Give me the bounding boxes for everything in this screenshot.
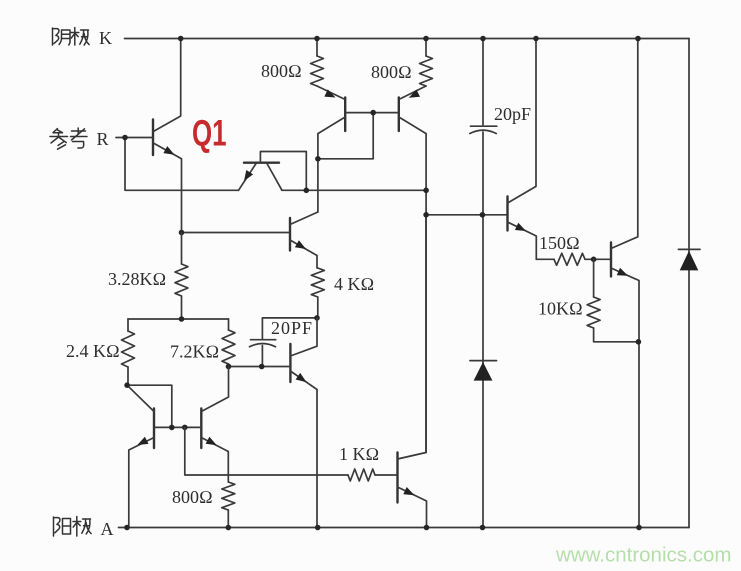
capacitor 20PF (left) xyxy=(250,315,320,366)
diode D2 (right edge) xyxy=(678,249,700,270)
char yang xyxy=(54,517,71,536)
svg-text:800Ω: 800Ω xyxy=(261,61,302,81)
transistor NPN pre-driver (right) xyxy=(508,39,537,260)
diode D1 (middle) xyxy=(470,361,497,381)
transistor NPN mirror right xyxy=(201,367,228,483)
svg-text:K: K xyxy=(99,28,112,48)
wire collector-base node to long wire xyxy=(282,188,426,194)
char can xyxy=(50,129,68,150)
resistor 150 ohm xyxy=(536,253,611,265)
label 20PF xyxy=(271,318,313,338)
svg-text:Q1: Q1 xyxy=(192,112,227,154)
transistor lateral PNP (diode-connected) xyxy=(239,152,307,191)
label 800 ohm left xyxy=(261,61,302,81)
resistor 800 ohm left xyxy=(311,39,346,100)
label 7.2K xyxy=(170,342,219,362)
resistor 4K xyxy=(311,268,324,318)
node A label xyxy=(54,517,114,540)
label 4K xyxy=(334,274,374,294)
label 1K xyxy=(339,444,379,464)
label Q1 xyxy=(192,112,227,154)
watermark xyxy=(555,544,731,567)
resistor 1K xyxy=(348,469,398,481)
wire right edge vertical xyxy=(688,39,690,528)
resistor 3.28K xyxy=(175,233,188,320)
node K label xyxy=(53,28,113,49)
svg-text:7.2KΩ: 7.2KΩ xyxy=(170,342,219,362)
resistor 800 ohm bottom xyxy=(222,482,235,528)
capacitor 20pF (top) xyxy=(470,39,497,528)
svg-text:20PF: 20PF xyxy=(271,318,313,338)
transistor NPN (below 20PF) xyxy=(290,318,317,528)
transistor NPN bottom driver xyxy=(398,215,427,528)
resistor 2.4K xyxy=(122,319,135,385)
svg-text:2.4 KΩ: 2.4 KΩ xyxy=(66,341,120,361)
svg-text:800Ω: 800Ω xyxy=(172,487,213,507)
wire comp node xyxy=(423,188,507,218)
resistor 10K xyxy=(587,259,641,344)
char ji xyxy=(71,28,89,46)
svg-text:10KΩ: 10KΩ xyxy=(538,299,583,319)
label 150 ohm xyxy=(539,233,580,253)
transistor PNP right of mirror pair xyxy=(399,98,426,453)
char yin xyxy=(53,28,71,45)
label 3.28K xyxy=(108,269,166,289)
transistor NPN mirror left xyxy=(127,385,154,527)
resistor 7.2K xyxy=(222,319,235,367)
char kao xyxy=(71,128,88,148)
wire top rail K xyxy=(125,38,690,40)
svg-text:800Ω: 800Ω xyxy=(371,62,412,82)
label 2.4K xyxy=(66,341,120,361)
transistor NPN output xyxy=(611,39,639,528)
label 800 ohm bottom xyxy=(172,487,213,507)
label 800 ohm right xyxy=(371,62,412,82)
junction dots top rail xyxy=(178,36,641,42)
svg-text:A: A xyxy=(101,519,114,539)
wire mirror base tap down xyxy=(185,427,348,475)
wire mirror base tie xyxy=(154,425,201,431)
label 20pF xyxy=(494,104,531,124)
resistor 800 ohm right xyxy=(399,39,433,100)
label 10K xyxy=(538,299,583,319)
wire bottom rail A xyxy=(119,527,690,529)
wire divider top rung xyxy=(128,316,229,322)
svg-text:3.28KΩ: 3.28KΩ xyxy=(108,269,166,289)
svg-text:20pF: 20pF xyxy=(494,104,531,124)
svg-text:1 KΩ: 1 KΩ xyxy=(339,444,379,464)
wire NPN base from 7.2K node xyxy=(226,364,291,370)
char ji2 xyxy=(73,517,91,537)
svg-text:4 KΩ: 4 KΩ xyxy=(334,274,374,294)
transistor PNP left of mirror pair xyxy=(318,98,345,213)
svg-text:www.cntronics.com: www.cntronics.com xyxy=(555,544,731,567)
junction dots bottom rail xyxy=(124,525,642,531)
transistor NPN gain stage (middle) xyxy=(290,212,318,268)
svg-text:R: R xyxy=(97,129,109,149)
wire mirror collector-base loop xyxy=(124,382,172,427)
transistor Q1 xyxy=(116,39,182,233)
node R wire xyxy=(122,135,238,191)
wire base tie of PNP pair xyxy=(315,110,399,162)
node R label xyxy=(50,128,109,149)
svg-text:150Ω: 150Ω xyxy=(539,233,580,253)
wire NPN base from 3.28K node xyxy=(179,230,290,236)
